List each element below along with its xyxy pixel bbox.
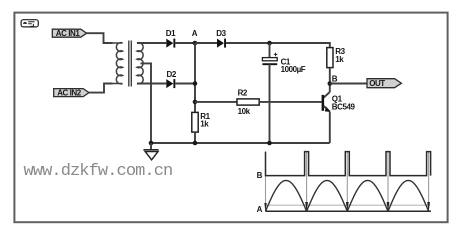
wire D2 to node A column (175, 83, 195, 85)
transformer core (129, 41, 132, 87)
wire node A column vertical (194, 43, 196, 112)
resistor R3 (327, 47, 346, 67)
svg-text:1k: 1k (335, 55, 344, 64)
svg-text:10k: 10k (238, 107, 251, 116)
junction dot D2/column (193, 81, 198, 86)
wire AC IN2 to transformer primary bottom (89, 84, 113, 93)
waveform trace A humps (266, 180, 429, 211)
svg-text:B: B (257, 171, 263, 180)
svg-text:BC549: BC549 (332, 103, 356, 112)
svg-text:R2: R2 (238, 89, 248, 98)
node A (192, 29, 198, 45)
resistor R1 (192, 112, 211, 132)
svg-text:D2: D2 (167, 70, 177, 79)
svg-text:www.dzkfw.com.cn: www.dzkfw.com.cn (24, 162, 173, 181)
wire Q1 emitter down (329, 112, 331, 143)
svg-text:1k: 1k (200, 120, 209, 129)
wire R1 bottom to rail (194, 132, 196, 143)
waveform timing gridlines (266, 152, 429, 212)
port flag OUT (367, 79, 401, 89)
wire secondary top lead to D1 (137, 42, 166, 44)
waveform trace B (266, 152, 431, 176)
wire D1 to node A (175, 42, 195, 44)
logo (21, 20, 38, 27)
wire AC IN1 to transformer primary top (87, 33, 113, 43)
waveform cusp marks (264, 202, 430, 211)
wire R2 right to Q1 base (259, 101, 322, 103)
junction dot R2/column (193, 100, 198, 105)
waveform reference line (266, 204, 431, 206)
capacitor C1 (262, 43, 305, 74)
diode D2 (166, 70, 177, 88)
svg-text:D1: D1 (166, 29, 176, 38)
wire R3 bottom to node B (329, 68, 331, 92)
wire secondary bottom lead to D2 (137, 83, 166, 85)
junction dot C1 bottom (267, 141, 272, 146)
svg-text:AC IN1: AC IN1 (56, 29, 81, 38)
svg-text:A: A (257, 205, 263, 214)
junction dot R1 bottom (193, 141, 198, 146)
junction dot ground rail left (149, 141, 154, 146)
wire node A to D3 (195, 42, 217, 44)
port flag AC IN1 (52, 29, 86, 38)
ground (143, 143, 158, 160)
transformer T primary winding (113, 43, 123, 84)
diode D1 (166, 29, 176, 48)
junction dot C1 top (267, 41, 272, 46)
svg-text:D3: D3 (216, 29, 226, 38)
transformer T secondary winding (137, 43, 143, 84)
wire secondary centre tap (141, 63, 152, 143)
wire R2 left (195, 101, 237, 103)
svg-text:B: B (332, 74, 338, 83)
resistor R2 (237, 89, 259, 116)
waveform baseline A (266, 210, 432, 212)
svg-text:A: A (192, 29, 198, 38)
svg-text:AC IN2: AC IN2 (57, 88, 82, 97)
wire node B to OUT (330, 83, 367, 85)
wire bottom rail (151, 142, 330, 144)
wire C1 bottom to rail (269, 64, 271, 143)
svg-text:OUT: OUT (369, 79, 385, 88)
wire top rail D3 to R3 corner (226, 43, 330, 48)
transistor Q1 (322, 92, 356, 112)
node B (328, 74, 338, 85)
port flag AC IN2 (54, 88, 89, 97)
diode D3 (216, 29, 226, 48)
svg-text:1000µF: 1000µF (281, 65, 306, 74)
